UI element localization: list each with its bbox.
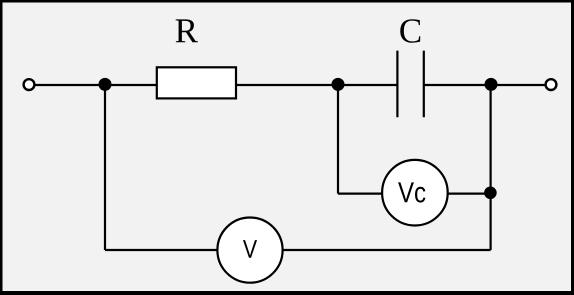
wire: right vertical from top node to bottom rail (490, 85, 492, 250)
node: junction left (top of V branch) (99, 78, 112, 91)
node: junction right top (485, 78, 498, 91)
wire: voltmeter Vc to right vertical (448, 193, 491, 195)
wire: capacitor right plate to right terminal (424, 84, 549, 86)
node: junction right at Vc branch (484, 187, 497, 200)
wire: Vc branch horizontal to voltmeter Vc (338, 193, 382, 195)
wire: resistor to capacitor left plate (236, 84, 397, 86)
label C (400, 19, 420, 43)
wire: bottom rail left segment to voltmeter V (105, 249, 218, 251)
wire: left node down to bottom rail (104, 85, 106, 250)
voltmeter Vc (382, 160, 448, 226)
label R (176, 19, 198, 42)
wire: left terminal to resistor (30, 84, 157, 86)
wire: bottom rail right segment from voltmeter V (282, 249, 491, 251)
terminal: right output (open circle) (546, 79, 557, 90)
terminal: left input (open circle) (24, 79, 35, 90)
resistor R (157, 67, 236, 98)
capacitor C (397, 51, 423, 118)
wire: middle node down to Vc branch (337, 85, 339, 194)
voltmeter V (217, 218, 282, 283)
node: junction middle (top of Vc branch) (332, 78, 345, 91)
